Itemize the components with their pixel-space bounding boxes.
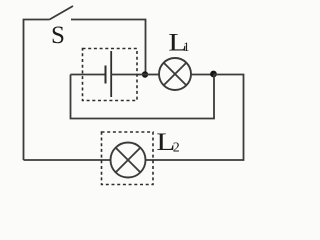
battery positive plate (long): [110, 51, 112, 97]
label L2: [156, 129, 175, 156]
svg-text:2: 2: [173, 141, 180, 156]
node A junction dot: [142, 71, 148, 77]
wire: bottom-left to lamp L2 left lead: [24, 159, 111, 161]
lamp L1: [159, 58, 191, 90]
svg-text:S: S: [51, 22, 65, 49]
wire: node B right, down right side, to lamp L2 right lead: [146, 75, 244, 161]
wire: top segment to right + down to node A: [71, 20, 146, 75]
battery right lead wire to node A: [111, 74, 145, 76]
node B junction dot: [210, 71, 217, 78]
switch S blade: [50, 6, 74, 20]
wire: node A to lamp L1: [145, 74, 159, 76]
dashed box around lamp L2: [102, 132, 154, 185]
battery left lead wire: [71, 74, 106, 76]
dashed box around battery: [83, 49, 138, 101]
lamp L2: [111, 143, 146, 178]
wire: lamp L1 to node B: [191, 74, 214, 76]
battery negative plate (short): [105, 66, 107, 84]
label L1: [168, 29, 187, 56]
svg-text:1: 1: [183, 40, 189, 54]
wire: inner loop left vertical, bottom horizontal, right vertical up to node B: [71, 74, 215, 119]
wire: left vertical + top-left segment: [24, 20, 50, 161]
